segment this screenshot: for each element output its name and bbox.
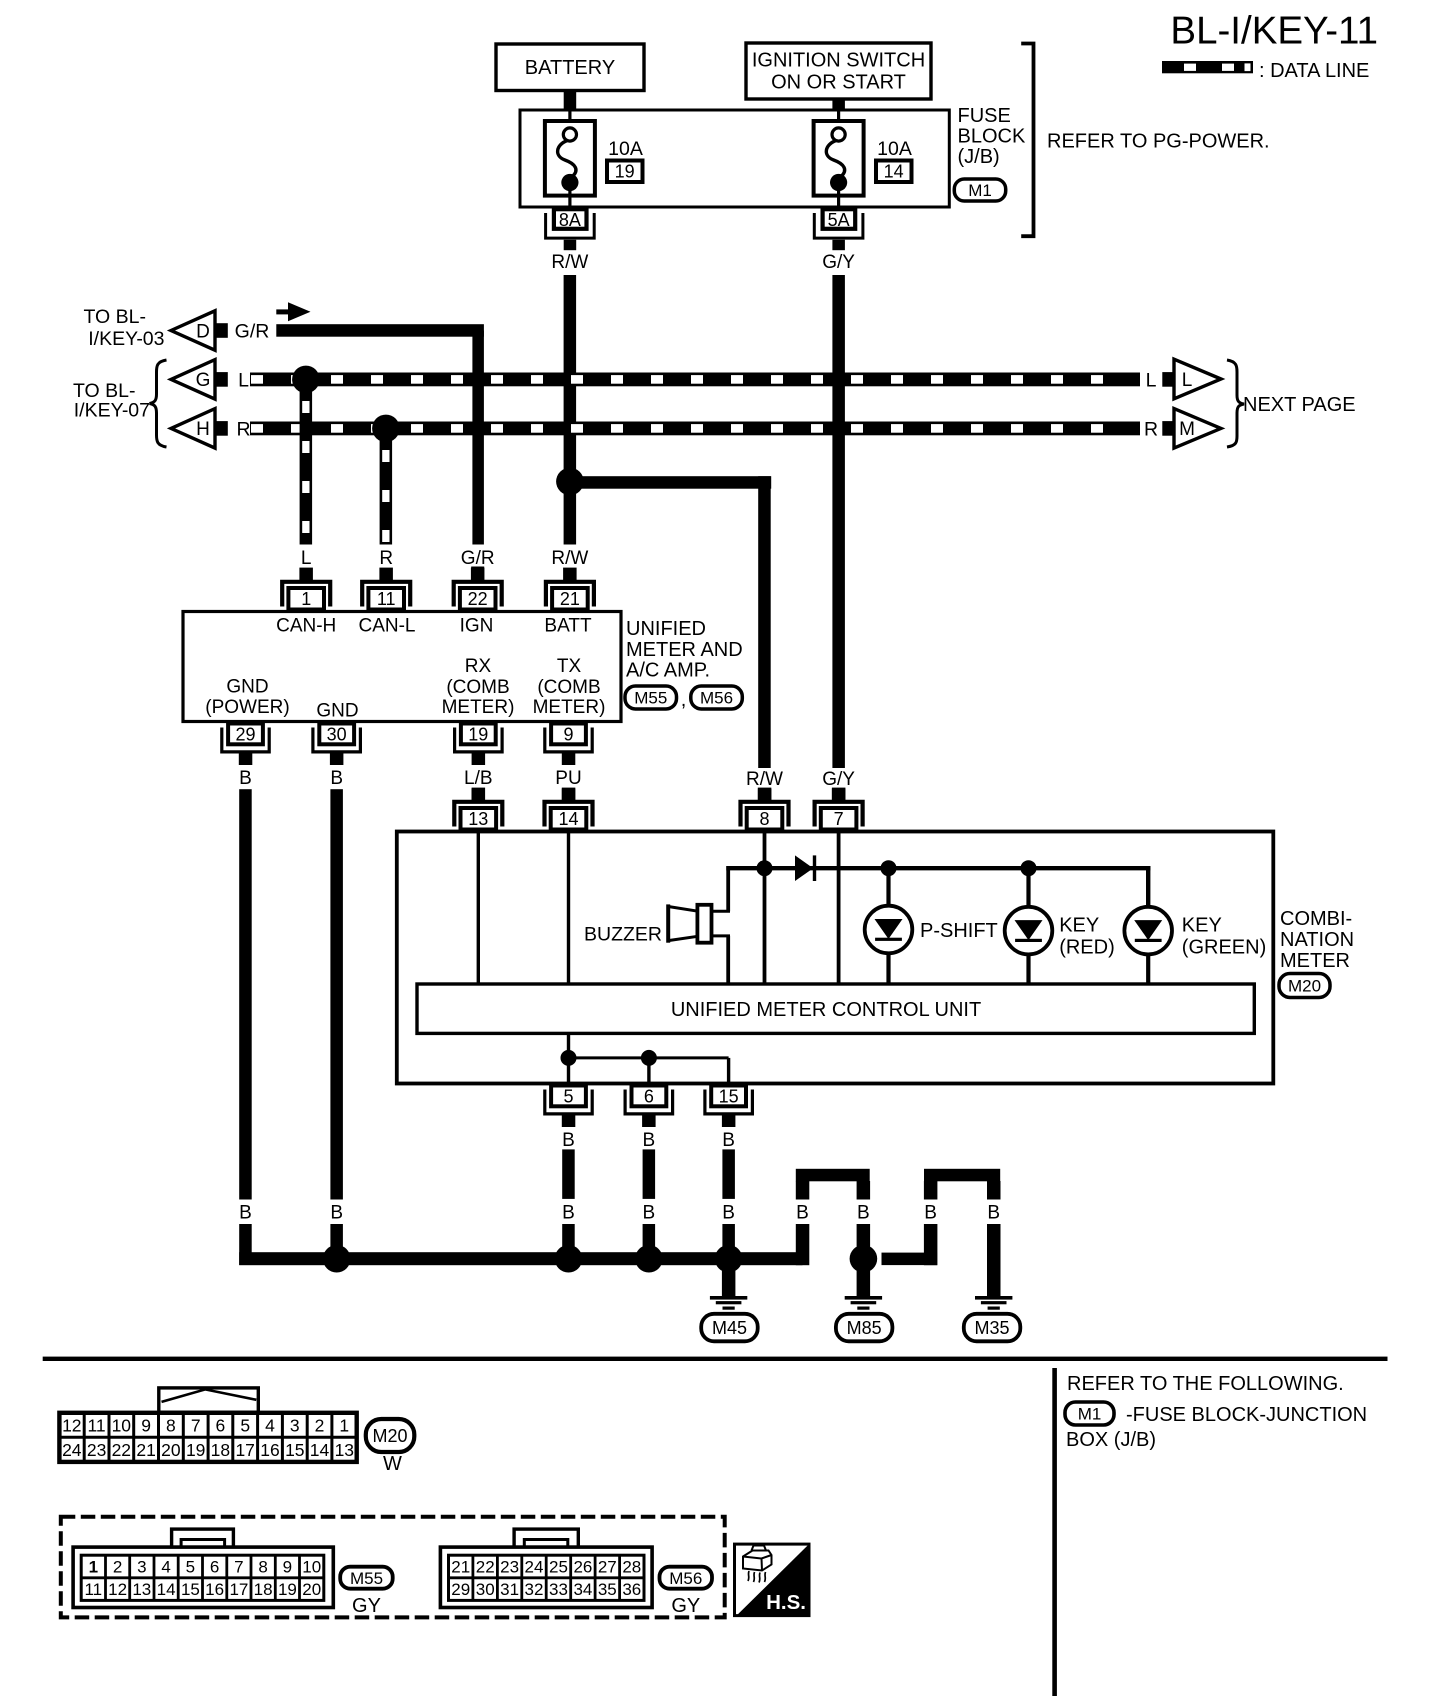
svg-text:GND: GND — [316, 701, 358, 722]
svg-text:M55: M55 — [350, 1569, 383, 1588]
junction node pin8 feed — [757, 860, 773, 876]
legend data line sample — [1162, 61, 1253, 73]
pin 14 comb meter — [562, 788, 576, 802]
svg-text:15: 15 — [285, 1440, 304, 1460]
fuse number box 14 — [876, 161, 912, 183]
svg-text:27: 27 — [598, 1558, 617, 1577]
svg-text:B: B — [722, 1130, 735, 1151]
wire pin 8 to control unit — [763, 832, 767, 985]
data line L vertical to pin 1 — [300, 390, 313, 545]
connector view M20 grid — [59, 1413, 356, 1462]
svg-text:16: 16 — [205, 1580, 224, 1599]
buzzer terminals — [712, 910, 731, 913]
svg-text:I/KEY-03: I/KEY-03 — [88, 328, 164, 350]
svg-text:18: 18 — [211, 1440, 230, 1460]
ground symbol M85 — [845, 1296, 882, 1300]
svg-text:29: 29 — [235, 725, 255, 745]
H.S. view icon — [735, 1544, 810, 1616]
svg-text:R/W: R/W — [746, 769, 783, 790]
pin 19 RX — [461, 724, 496, 745]
ground symbol M45 — [710, 1296, 747, 1300]
connector id M56 oval footer — [660, 1567, 713, 1589]
pin 15 comb meter — [711, 1086, 746, 1107]
svg-text:UNIFIED METER CONTROL UNIT: UNIFIED METER CONTROL UNIT — [671, 999, 981, 1021]
wire down to pin 6 — [647, 1058, 650, 1084]
pin 5 comb meter — [551, 1086, 586, 1107]
svg-text:M1: M1 — [968, 181, 992, 200]
svg-text:B: B — [330, 768, 343, 789]
svg-text:15: 15 — [181, 1580, 200, 1599]
wire branch to pins 6 and 15 — [569, 1056, 729, 1059]
svg-text:16: 16 — [260, 1440, 279, 1460]
svg-text:23: 23 — [500, 1558, 519, 1577]
junction node p-shift — [881, 860, 897, 876]
svg-text:M56: M56 — [669, 1569, 702, 1588]
svg-text:,: , — [681, 689, 687, 711]
brace right next page — [1227, 360, 1244, 447]
svg-text:14: 14 — [310, 1440, 330, 1460]
svg-text:M20: M20 — [372, 1426, 407, 1446]
led KEY RED — [1005, 907, 1053, 955]
svg-text:M35: M35 — [974, 1318, 1009, 1338]
svg-text:2: 2 — [113, 1558, 122, 1577]
connector view M56 box — [440, 1547, 652, 1607]
pin 30 GND — [319, 724, 354, 745]
pin 29 GND POWER — [228, 724, 263, 745]
data line R vertical to pin 11 — [380, 439, 393, 545]
svg-text:10A: 10A — [877, 138, 912, 160]
svg-text:24: 24 — [62, 1440, 82, 1460]
svg-text:B: B — [924, 1202, 937, 1223]
svg-text:22: 22 — [468, 589, 488, 609]
svg-text:13: 13 — [132, 1580, 151, 1599]
svg-text:33: 33 — [549, 1580, 568, 1599]
svg-text:BL-I/KEY-11: BL-I/KEY-11 — [1170, 9, 1378, 52]
svg-text:PU: PU — [555, 768, 581, 789]
arrow head on G/R wire — [276, 309, 297, 314]
svg-text:5A: 5A — [828, 210, 850, 230]
svg-text:7: 7 — [191, 1415, 201, 1435]
svg-text:2: 2 — [315, 1415, 325, 1435]
svg-text:CAN-L: CAN-L — [358, 616, 415, 637]
svg-text:6: 6 — [210, 1558, 219, 1577]
wire jog2 top — [924, 1169, 1000, 1182]
svg-text:B: B — [562, 1202, 575, 1223]
junction node key red — [1021, 860, 1037, 876]
junction node R/W — [556, 468, 584, 496]
svg-text:R: R — [379, 548, 393, 569]
page connector triangle D — [171, 311, 215, 350]
svg-text:5: 5 — [240, 1415, 250, 1435]
H.S. connector pictogram — [743, 1551, 772, 1571]
svg-text:GY: GY — [352, 1595, 381, 1617]
svg-text:8: 8 — [258, 1558, 267, 1577]
wire down to pin 15 — [727, 1058, 730, 1084]
svg-text:COMBI-: COMBI- — [1280, 908, 1352, 930]
svg-text:M1: M1 — [1078, 1405, 1102, 1424]
svg-text:(COMB: (COMB — [537, 677, 600, 698]
fuse 10A #19 — [568, 111, 571, 129]
svg-text:B: B — [722, 1202, 735, 1223]
ignition switch box — [746, 43, 931, 99]
svg-text:19: 19 — [615, 162, 635, 182]
svg-text:TO BL-: TO BL- — [84, 306, 147, 328]
wire jog2 right leg — [987, 1181, 1001, 1200]
bracket refer pg-power — [1021, 44, 1033, 237]
svg-text:34: 34 — [573, 1580, 592, 1599]
connector view M55 latch — [172, 1529, 234, 1548]
svg-text:6: 6 — [216, 1415, 226, 1435]
svg-text:21: 21 — [560, 589, 580, 609]
wire B from pin 29 — [239, 789, 252, 1199]
svg-text:7: 7 — [834, 809, 844, 829]
connector view M56 latch — [514, 1529, 578, 1548]
svg-text:1: 1 — [89, 1558, 98, 1577]
svg-text:NATION: NATION — [1280, 929, 1354, 951]
svg-text:G/R: G/R — [461, 548, 495, 569]
svg-text:14: 14 — [558, 809, 578, 829]
svg-text:P-SHIFT: P-SHIFT — [920, 920, 998, 942]
svg-text:6: 6 — [644, 1087, 654, 1107]
svg-text:H: H — [196, 419, 210, 440]
ground symbol M35 — [975, 1296, 1012, 1300]
page connector triangle G — [171, 360, 215, 400]
svg-text:22: 22 — [476, 1558, 495, 1577]
svg-text:11: 11 — [88, 1415, 106, 1435]
svg-text:4: 4 — [265, 1415, 275, 1435]
connector id M1 oval — [954, 179, 1005, 201]
svg-text:I/KEY-07: I/KEY-07 — [74, 400, 150, 422]
svg-text:(COMB: (COMB — [446, 677, 509, 698]
svg-text:B: B — [796, 1202, 809, 1223]
wire R/W branch horizontal to pin 8 column — [570, 476, 771, 489]
svg-text:W: W — [383, 1453, 402, 1475]
svg-text:B: B — [239, 1202, 252, 1223]
svg-text:IGN: IGN — [460, 616, 494, 637]
wire key green led — [1146, 953, 1150, 984]
svg-text:10: 10 — [302, 1558, 321, 1577]
svg-text:KEY: KEY — [1182, 915, 1222, 937]
svg-text:13: 13 — [468, 809, 488, 829]
connector id M20 oval — [1279, 974, 1330, 998]
junction node R — [372, 415, 400, 443]
svg-text:GY: GY — [671, 1595, 700, 1617]
svg-text:31: 31 — [500, 1580, 519, 1599]
svg-text:15: 15 — [719, 1087, 739, 1107]
dashed group box M55 M56 — [61, 1517, 725, 1618]
wire corner to key green — [1146, 866, 1150, 906]
svg-text:G/Y: G/Y — [822, 769, 855, 790]
ground id M85 oval — [836, 1314, 893, 1342]
svg-text:M45: M45 — [712, 1318, 747, 1338]
svg-text:32: 32 — [525, 1580, 544, 1599]
wire bus dot M85 to jog2 — [882, 1253, 938, 1266]
svg-text:L: L — [1146, 370, 1157, 392]
svg-text:22: 22 — [112, 1440, 131, 1460]
svg-text:G/R: G/R — [235, 321, 270, 343]
junction node pin5 — [561, 1050, 577, 1066]
wire horizontal led feed — [726, 866, 1150, 870]
svg-text:A/C AMP.: A/C AMP. — [626, 660, 710, 682]
data line L horizontal — [250, 373, 1140, 387]
junction node bus 15 / M45 — [715, 1245, 743, 1273]
svg-text:CAN-H: CAN-H — [276, 616, 336, 637]
wire G/R vertical to pin 22 — [472, 331, 484, 545]
svg-text:G/Y: G/Y — [822, 252, 855, 273]
svg-text:KEY: KEY — [1059, 915, 1099, 937]
svg-text:BLOCK: BLOCK — [958, 126, 1026, 148]
svg-text:12: 12 — [108, 1580, 127, 1599]
svg-text:FUSE: FUSE — [958, 105, 1011, 127]
page connector triangle H — [171, 409, 215, 449]
junction node bus 6 — [635, 1245, 663, 1273]
ground id M35 oval — [964, 1314, 1021, 1342]
data line R horizontal — [250, 422, 1140, 436]
svg-text:BATT: BATT — [544, 616, 592, 637]
svg-text:RX: RX — [465, 656, 492, 677]
svg-text:17: 17 — [235, 1440, 254, 1460]
wire jog1 left leg — [796, 1181, 810, 1200]
svg-text:20: 20 — [302, 1580, 321, 1599]
separator rule — [43, 1357, 1388, 1361]
wire B corner into ground bus — [239, 1224, 252, 1265]
connector id M55 oval — [625, 686, 677, 709]
svg-text:18: 18 — [254, 1580, 273, 1599]
buzzer speaker symbol — [666, 904, 670, 942]
svg-text:METER): METER) — [442, 697, 515, 718]
svg-text:19: 19 — [278, 1580, 297, 1599]
diode D1 — [795, 855, 813, 881]
svg-text:36: 36 — [622, 1580, 641, 1599]
pin 6 comb meter — [632, 1086, 667, 1107]
svg-text:30: 30 — [327, 725, 347, 745]
svg-text:M85: M85 — [847, 1318, 882, 1338]
svg-text:REFER TO PG-POWER.: REFER TO PG-POWER. — [1047, 131, 1270, 153]
pin 1 CAN-H — [299, 568, 313, 582]
svg-text:B: B — [330, 1202, 343, 1223]
svg-text:M55: M55 — [634, 689, 667, 708]
svg-text:L: L — [238, 370, 249, 392]
svg-text:8: 8 — [166, 1415, 176, 1435]
svg-text:IGNITION SWITCH: IGNITION SWITCH — [752, 50, 925, 72]
wire key red led — [1026, 868, 1030, 906]
svg-text:14: 14 — [884, 162, 904, 182]
svg-text:26: 26 — [573, 1558, 592, 1577]
fuse 10A #14 — [837, 111, 840, 129]
svg-text:-FUSE BLOCK-JUNCTION: -FUSE BLOCK-JUNCTION — [1126, 1404, 1367, 1426]
svg-text:L: L — [301, 548, 312, 569]
svg-text:L/B: L/B — [464, 768, 493, 789]
fuse number box 19 — [607, 161, 643, 183]
svg-text:5: 5 — [563, 1087, 573, 1107]
svg-text:(RED): (RED) — [1059, 937, 1115, 959]
connector pin 5A of fuse block — [823, 209, 856, 229]
svg-text:8: 8 — [759, 809, 769, 829]
connector id M56 oval — [691, 686, 743, 709]
svg-text:4: 4 — [161, 1558, 170, 1577]
svg-text:METER AND: METER AND — [626, 639, 743, 661]
svg-text:20: 20 — [161, 1440, 181, 1460]
svg-text:NEXT PAGE: NEXT PAGE — [1243, 394, 1356, 416]
wire p-shift led — [886, 868, 890, 906]
wire pin 13 to control unit — [477, 832, 480, 985]
svg-text:R: R — [1144, 419, 1158, 441]
svg-text:M: M — [1179, 419, 1195, 440]
wire B from pin 30 — [330, 789, 343, 1199]
svg-text:9: 9 — [283, 1558, 292, 1577]
svg-text:10A: 10A — [608, 138, 643, 160]
unified meter and a/c amp block M55/M56 — [183, 612, 621, 722]
wire jog2 left leg — [924, 1181, 938, 1200]
pin 13 comb meter — [472, 788, 486, 802]
svg-text:TX: TX — [557, 656, 582, 677]
svg-text:5: 5 — [186, 1558, 195, 1577]
junction node pin6 — [641, 1050, 657, 1066]
svg-text:13: 13 — [335, 1440, 354, 1460]
page connector triangle L next page — [1174, 359, 1221, 399]
pin 8 comb meter — [758, 788, 772, 802]
junction node L — [292, 366, 320, 394]
wire pin 7 to control unit — [837, 832, 841, 985]
svg-text:24: 24 — [525, 1558, 544, 1577]
svg-text:3: 3 — [137, 1558, 146, 1577]
combination meter box M20 — [397, 832, 1274, 1084]
svg-text:R/W: R/W — [551, 252, 588, 273]
svg-text:35: 35 — [598, 1580, 617, 1599]
pin 11 CAN-L — [379, 568, 393, 582]
svg-text:21: 21 — [136, 1440, 155, 1460]
wire jog1 top — [796, 1169, 870, 1182]
unified meter control unit box — [417, 984, 1254, 1033]
svg-text:17: 17 — [229, 1580, 248, 1599]
svg-text:ON OR START: ON OR START — [771, 72, 906, 94]
svg-text:7: 7 — [234, 1558, 243, 1577]
svg-text:8A: 8A — [559, 210, 581, 230]
svg-text:B: B — [643, 1130, 656, 1151]
svg-text:14: 14 — [157, 1580, 176, 1599]
svg-text:10: 10 — [112, 1415, 132, 1435]
svg-text:19: 19 — [468, 725, 488, 745]
svg-text:11: 11 — [377, 589, 396, 609]
wire stub M45 ground — [722, 1270, 736, 1296]
wire G/R horizontal — [276, 324, 484, 337]
svg-text:B: B — [987, 1202, 1000, 1223]
wire control unit to pin 5 — [567, 1033, 570, 1083]
wire stub M85 ground — [857, 1270, 871, 1296]
svg-text:R/W: R/W — [551, 548, 588, 569]
wire ignition to fuse block — [832, 99, 845, 111]
page connector triangle M next page — [1174, 409, 1221, 449]
svg-text:M56: M56 — [700, 689, 733, 708]
brace left for key-07 — [150, 360, 167, 447]
pin 21 BATT — [563, 568, 577, 582]
svg-text:B: B — [239, 768, 252, 789]
svg-text:REFER TO THE FOLLOWING.: REFER TO THE FOLLOWING. — [1067, 1373, 1344, 1395]
pin 7 comb meter — [832, 788, 846, 802]
wire battery to fuse block — [564, 91, 577, 112]
svg-text:B: B — [562, 1130, 575, 1151]
wire R/W vertical from 8A to pin 21 — [564, 275, 577, 545]
svg-text:(J/B): (J/B) — [958, 146, 1000, 168]
led P-SHIFT — [865, 906, 913, 954]
connector view M55 box — [73, 1547, 333, 1607]
svg-text:B: B — [857, 1202, 870, 1223]
svg-text:(GREEN): (GREEN) — [1182, 937, 1266, 959]
pin 9 TX — [551, 724, 586, 745]
svg-text:25: 25 — [549, 1558, 568, 1577]
svg-text:21: 21 — [451, 1558, 470, 1577]
svg-text:11: 11 — [84, 1580, 102, 1599]
svg-text:9: 9 — [141, 1415, 151, 1435]
wire G/Y vertical from 5A to pin 7 — [832, 275, 845, 768]
svg-text:29: 29 — [451, 1580, 470, 1599]
svg-text:METER): METER) — [533, 697, 606, 718]
wire buzzer bottom branch — [726, 936, 730, 984]
svg-text:3: 3 — [290, 1415, 300, 1435]
junction node bus 5 — [555, 1245, 583, 1273]
connector pin 8A of fuse block — [554, 209, 587, 229]
svg-text:1: 1 — [339, 1415, 349, 1435]
svg-text:1: 1 — [301, 589, 311, 609]
wire R/W branch vertical to pin 8 — [758, 476, 771, 768]
svg-text:19: 19 — [186, 1440, 205, 1460]
ground bus horizontal — [239, 1252, 802, 1265]
connector id M55 oval footer — [340, 1567, 393, 1589]
svg-text:UNIFIED: UNIFIED — [626, 618, 706, 640]
ground id M45 oval — [701, 1314, 758, 1342]
wire buzzer top branch — [726, 866, 730, 911]
svg-text:: DATA LINE: : DATA LINE — [1259, 60, 1369, 82]
svg-text:12: 12 — [62, 1415, 81, 1435]
wire pin 14 to control unit — [567, 832, 570, 985]
fuse block M1 outline — [520, 110, 949, 207]
connector id M20 oval footer — [366, 1419, 415, 1452]
svg-text:B: B — [643, 1202, 656, 1223]
connector id M1 oval footer — [1065, 1402, 1114, 1425]
svg-text:BOX (J/B): BOX (J/B) — [1066, 1429, 1156, 1451]
svg-text:BATTERY: BATTERY — [525, 57, 615, 79]
svg-text:D: D — [196, 321, 210, 342]
svg-text:9: 9 — [563, 725, 573, 745]
svg-text:(POWER): (POWER) — [205, 697, 289, 718]
svg-text:R: R — [236, 419, 250, 441]
svg-text:30: 30 — [476, 1580, 495, 1599]
svg-text:GND: GND — [226, 677, 268, 698]
svg-text:28: 28 — [622, 1558, 641, 1577]
wire jog1 right leg — [857, 1181, 871, 1200]
junction node bus 30 — [323, 1245, 351, 1273]
svg-text:BUZZER: BUZZER — [584, 924, 662, 946]
separator vertical divider — [1052, 1368, 1057, 1696]
junction node M85 — [850, 1245, 878, 1273]
led KEY GREEN — [1124, 907, 1172, 955]
svg-text:H.S.: H.S. — [766, 1591, 806, 1614]
connector view M20 latch — [159, 1388, 258, 1412]
svg-text:23: 23 — [87, 1440, 106, 1460]
battery box — [496, 44, 644, 91]
svg-text:METER: METER — [1280, 950, 1350, 972]
svg-text:L: L — [1182, 370, 1193, 391]
pin 22 IGN — [471, 568, 485, 582]
svg-text:M20: M20 — [1288, 977, 1321, 996]
svg-text:G: G — [196, 370, 211, 391]
